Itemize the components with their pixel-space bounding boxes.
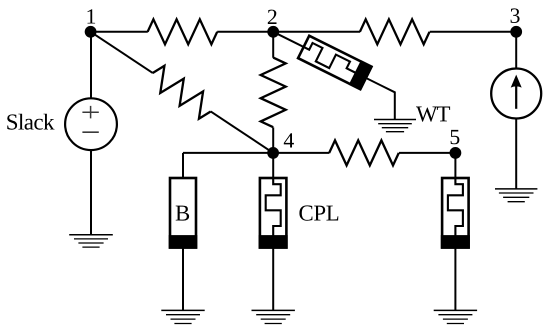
wire node4 left to battery branch	[183, 152, 273, 154]
node 4	[267, 147, 279, 159]
label WT	[416, 107, 450, 122]
wire slack source to ground	[90, 150, 92, 235]
current source arrow	[515, 85, 517, 109]
wire memristor M5 box to ground	[454, 248, 456, 311]
minus sign of slack source	[82, 131, 98, 133]
wire node2 down to node4 (top stub)	[272, 32, 274, 58]
wire node1 to node2 (right stub)	[217, 31, 273, 33]
label 3	[511, 8, 520, 23]
label 1	[88, 9, 96, 23]
wire node2 to node3 (right stub)	[430, 31, 517, 33]
plus sign of slack source	[82, 106, 98, 119]
memristor WT (diagonal box)	[298, 36, 371, 89]
ground G4 (under CPL)	[252, 310, 295, 323]
wire node4 to node5 (left stub)	[273, 152, 329, 154]
voltage source V-slack circle	[65, 98, 117, 150]
wire node4 to node5 (right stub)	[399, 152, 455, 154]
node 2	[267, 26, 279, 38]
wire diagonal stub upper	[91, 32, 153, 73]
wire current source to ground	[515, 118, 517, 189]
ground G1 (under slack)	[69, 235, 113, 247]
label CPL	[299, 205, 338, 220]
resistor R23	[360, 19, 430, 44]
ground G5 (under M5)	[434, 310, 477, 323]
wire node5 down to memristor box	[454, 153, 456, 178]
ground G2 (WT)	[374, 120, 416, 132]
wire battery branch down to B box	[182, 153, 184, 178]
wire node4 down to CPL box	[272, 153, 274, 178]
wire node1 to node2 (left stub)	[91, 31, 148, 33]
label 5	[451, 130, 460, 144]
wire node2 diagonal to WT ground (bend)	[273, 32, 395, 120]
memristor CPL box	[260, 178, 287, 248]
ground G6 (under current source)	[495, 189, 537, 202]
label Slack	[7, 114, 54, 130]
current source I3 circle	[491, 69, 541, 119]
wire node2 down to node4 (bottom stub)	[272, 127, 274, 152]
wire node3 down to current source	[515, 32, 517, 69]
resistor R24 (vertical)	[261, 58, 286, 128]
wire CPL box to ground	[272, 248, 274, 311]
wire B box to ground	[182, 248, 184, 311]
node 1	[85, 26, 97, 38]
wire diagonal stub lower	[211, 111, 273, 152]
wire node1 down to slack source	[90, 32, 92, 99]
label 2	[268, 10, 277, 24]
wire node1 to node4 diagonal (with resistor R14)	[84, 21, 280, 163]
label 4	[284, 133, 294, 147]
resistor R12	[148, 19, 218, 44]
ground G3 (under B)	[161, 310, 204, 323]
label B	[176, 206, 189, 221]
node 3	[510, 26, 522, 38]
resistor R14	[146, 63, 218, 122]
battery B box	[170, 178, 196, 248]
wire node2 to node3 (left stub)	[273, 31, 360, 33]
node 5	[450, 147, 462, 159]
memristor M5 box	[442, 178, 469, 248]
resistor R45	[329, 140, 399, 165]
